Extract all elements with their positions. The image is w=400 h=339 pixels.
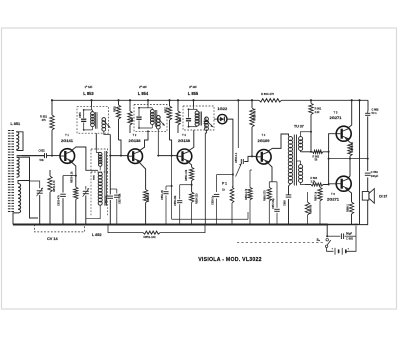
svg-text:3.3k: 3.3k [311, 180, 316, 183]
resistor R859b [176, 99, 180, 133]
wire antenna mid hook [17, 157, 30, 183]
label R852 [53, 180, 56, 192]
svg-text:C 862: C 862 [372, 108, 379, 112]
wire secondary mid [297, 161, 301, 165]
label L851 [11, 122, 21, 126]
svg-text:T 2: T 2 [133, 133, 137, 137]
resistor R858 emitter T3 [189, 167, 193, 192]
wire top supply rail [52, 99, 368, 101]
capacitor C856 [241, 159, 243, 164]
label T3 [178, 133, 191, 143]
svg-text:P 1: P 1 [222, 182, 227, 186]
svg-text:R 858-56 k: R 858-56 k [253, 108, 256, 121]
wire rail end down [367, 100, 369, 112]
svg-text:2G141: 2G141 [61, 138, 74, 143]
transformer TU37 secondary bottom [299, 165, 303, 183]
wire diode in [214, 118, 218, 120]
wire T2 collector [140, 130, 149, 150]
svg-text:R855: R855 [114, 106, 117, 112]
svg-text:R 861: R 861 [315, 108, 322, 111]
svg-text:R853-8.2k: R853-8.2k [71, 171, 74, 183]
svg-text:T 4: T 4 [262, 133, 266, 137]
title VISIOLA MOD VL3022 [198, 257, 262, 263]
wire ground rail [13, 224, 327, 226]
resistor R859 [189, 192, 193, 225]
junction dots top rail [51, 99, 361, 101]
resistor R866 [305, 192, 309, 225]
diode 1G22 [218, 114, 227, 123]
label C860 [284, 200, 287, 206]
oscillator core [105, 151, 107, 206]
svg-text:DI 37: DI 37 [379, 194, 387, 198]
capacitor C862 [365, 112, 370, 159]
label DI37 [379, 194, 387, 198]
wire antenna tap to base line [17, 155, 44, 157]
wire T6 emitter [347, 190, 351, 202]
wire AVC drop [237, 99, 239, 148]
resistor R867 [318, 185, 322, 225]
label L854 [138, 91, 149, 96]
resistor R860b [267, 182, 271, 225]
label R851-10k [144, 235, 157, 239]
svg-text:1ª MF: 1ª MF [85, 85, 93, 89]
wire T5 emitter [347, 140, 350, 143]
oscillator coil L852 [98, 172, 102, 205]
capacitor C854 [0, 0, 1, 1]
svg-text:C860: C860 [284, 200, 287, 206]
wire osc link [30, 176, 76, 189]
label T1 [61, 133, 74, 143]
capacitor C859 [214, 194, 219, 224]
wire T3 collector [189, 130, 194, 151]
node mid rail [328, 152, 330, 186]
svg-text:T 3: T 3 [182, 133, 186, 137]
svg-text:R 860-470: R 860-470 [261, 92, 275, 96]
label T4 [257, 133, 270, 143]
svg-text:R865-3.3: R865-3.3 [351, 141, 354, 152]
capacitor C863 [365, 159, 371, 192]
wire T3 emitter [188, 162, 192, 168]
label T2 [128, 133, 141, 143]
svg-text:C 863: C 863 [371, 170, 378, 174]
antenna ferrite rod L851 [8, 130, 14, 212]
wire pot top link [217, 175, 233, 193]
wire diode out [227, 119, 234, 187]
svg-text:C852: C852 [39, 149, 46, 153]
junction dots ground rail [39, 224, 321, 226]
resistor R853 emitter T1 [74, 169, 78, 225]
svg-text:L 855: L 855 [188, 91, 199, 96]
svg-text:47k: 47k [42, 118, 47, 122]
label R868 [347, 203, 350, 212]
svg-text:C858-32k: C858-32k [174, 195, 177, 206]
svg-text:L 853: L 853 [83, 91, 94, 96]
transistor T6 [336, 176, 351, 191]
wire P1 bottom [231, 203, 233, 225]
label L855 [188, 91, 199, 96]
svg-text:T 6: T 6 [331, 192, 335, 196]
svg-text:C859-2μ: C859-2μ [211, 195, 214, 205]
wire switch drop [326, 224, 328, 238]
potentiometer P1 [230, 187, 234, 203]
wire L855 secondary to diode [0, 0, 1, 1]
svg-text:0595: 0595 [94, 174, 96, 180]
svg-text:R858-1.8k: R858-1.8k [185, 169, 188, 181]
label T5 [329, 111, 342, 121]
label R854 [114, 106, 117, 112]
wire TU37 primary bottom [289, 184, 291, 192]
svg-text:R852-4.7k: R852-4.7k [53, 180, 56, 192]
wire base T3 [157, 155, 177, 157]
label C859t [161, 189, 164, 200]
svg-text:2G271: 2G271 [327, 197, 340, 202]
resistor R856 emitter T2 [143, 190, 147, 225]
wire T1 collector [72, 147, 98, 170]
svg-text:50μF: 50μF [346, 231, 352, 235]
svg-text:R856-1k: R856-1k [147, 192, 150, 202]
label R858b [165, 107, 168, 113]
capacitor C852 [45, 153, 47, 158]
wire secondary bottom feed [300, 183, 305, 185]
label R856 [147, 192, 150, 202]
transistor T4 [257, 150, 272, 165]
label R859b [179, 117, 182, 122]
capacitor C865 [341, 233, 343, 239]
wire L854 secondary down [157, 129, 159, 156]
wire antenna bottom [13, 213, 18, 225]
resistor R860 [259, 99, 282, 102]
svg-text:C857-50μ: C857-50μ [272, 198, 275, 209]
label C858t [174, 195, 177, 206]
label TU37 [294, 124, 304, 128]
svg-text:L 854: L 854 [138, 91, 149, 96]
label 1G22 [217, 106, 228, 111]
label R859 [196, 193, 199, 204]
label P1 [222, 182, 227, 186]
IF transformer L855 can [183, 106, 214, 131]
dashed switch link [237, 241, 323, 243]
transistor T2 [128, 149, 143, 164]
resistor R859c [248, 170, 252, 225]
resistor R864 [305, 183, 323, 186]
label 1a MF [85, 85, 93, 89]
label L852 under [92, 233, 102, 237]
tuning capacitor CV14 section a [37, 188, 43, 225]
svg-text:R851-10k: R851-10k [144, 235, 157, 239]
wire L853 secondary down [104, 131, 111, 156]
potentiometer wiper arrow [236, 164, 242, 177]
wire ground rail right [327, 224, 358, 226]
transistor T5 [336, 126, 351, 141]
label R861 [315, 108, 322, 115]
capacitor C857e [274, 182, 279, 225]
oscillator winding upper [98, 152, 102, 166]
wire L852 leads [86, 205, 100, 219]
capacitor C861b [204, 117, 209, 129]
svg-text:50 n: 50 n [372, 111, 378, 115]
svg-text:C853-47k: C853-47k [58, 194, 61, 206]
resistor R865 [348, 143, 352, 159]
wire bias join T3 [170, 140, 172, 156]
svg-text:VISIOLA - MOD. VL3022: VISIOLA - MOD. VL3022 [198, 257, 262, 263]
svg-text:R867-1k: R867-1k [314, 191, 317, 201]
resistor R854 [116, 99, 120, 140]
wire R863 to T5 base [323, 134, 337, 153]
wire antenna top hook [16, 132, 23, 151]
svg-text:3ª MF: 3ª MF [189, 85, 197, 89]
svg-text:2G109: 2G109 [257, 138, 270, 143]
label R859c [245, 188, 248, 200]
svg-text:TU 37: TU 37 [294, 124, 304, 128]
svg-text:C857-50k: C857-50k [119, 193, 122, 204]
capacitor C856b [108, 156, 113, 225]
label C857e [272, 198, 275, 209]
oscillator feedback can dashed [91, 149, 108, 172]
wire osc coupling [0, 0, 1, 1]
antenna coil L851 winding a [16, 132, 19, 150]
capacitor C860 [286, 192, 292, 225]
label P1 value [222, 188, 225, 192]
transformer TU37 primary [288, 137, 292, 184]
wire T1 emitter [71, 162, 76, 170]
wire T6 collector [348, 159, 350, 178]
wire speaker bottom [358, 200, 368, 225]
svg-text:1G22: 1G22 [217, 106, 228, 111]
svg-text:T 1: T 1 [65, 133, 69, 137]
resistor R852 [48, 170, 52, 225]
label T6 [327, 192, 340, 201]
label C856 [235, 152, 238, 163]
wire battery top link [327, 235, 356, 237]
label R864 [311, 177, 318, 183]
label C865 [346, 231, 353, 240]
wire rail to L853 [91, 99, 93, 106]
label S1 [317, 238, 321, 242]
transformer TU37 core [294, 135, 296, 186]
wire osc upper leads [96, 150, 100, 171]
wire V+ vertical [359, 99, 361, 224]
wire battery right [346, 224, 357, 252]
label C853 [58, 194, 61, 206]
svg-text:2G271: 2G271 [329, 115, 342, 120]
resistor R851 [50, 99, 54, 156]
label R851 [40, 115, 48, 122]
svg-text:R860-270: R860-270 [263, 190, 266, 201]
dashed gang outline CV14 [35, 225, 85, 232]
label 3a MF [189, 85, 197, 89]
label R863 [313, 156, 320, 162]
svg-text:R857: R857 [165, 107, 168, 113]
capacitor C859t [163, 186, 171, 225]
label L853 [83, 91, 94, 96]
wire R851-10k bypass [108, 225, 205, 235]
label R858c [253, 108, 256, 121]
antenna coil L851 winding b [17, 157, 20, 177]
wire C856 to base T4 [244, 155, 256, 161]
svg-text:CV 14: CV 14 [47, 237, 58, 241]
wire rail to L854 [147, 99, 149, 104]
resistor R861 [309, 99, 313, 153]
resistor R858b [167, 99, 171, 140]
transistor T1 [60, 149, 75, 164]
switch S1 [325, 238, 330, 247]
label 2a MF [139, 85, 147, 89]
svg-text:T 5: T 5 [334, 111, 338, 115]
transformer TU37 secondary top [299, 137, 303, 151]
wire L853 primary down [95, 133, 97, 149]
label C856b [105, 195, 108, 205]
label R855 [131, 117, 134, 122]
wire T4 collector [268, 134, 288, 151]
label C862 [372, 108, 379, 116]
svg-text:C859-.05: C859-.05 [161, 189, 164, 200]
wire antenna right drop [30, 157, 39, 218]
wire T2 emitter [139, 162, 146, 190]
label R860 [261, 92, 275, 96]
svg-text:50k: 50k [40, 158, 45, 162]
wire AGC line [171, 155, 248, 220]
wire mid node line [329, 158, 369, 160]
svg-text:C856-0.1: C856-0.1 [235, 152, 238, 163]
wire base T1 [22, 155, 60, 157]
battery B1 [332, 248, 350, 255]
wire secondary top feed [300, 132, 311, 152]
capacitor C853 [60, 176, 66, 225]
label C855 [79, 112, 82, 118]
capacitor C857b [114, 189, 119, 225]
wire bias join T2 [119, 140, 122, 156]
wire battery left [327, 248, 334, 252]
svg-text:2G138: 2G138 [128, 138, 141, 143]
wire T2 lower link [110, 188, 117, 190]
wire base T2 [109, 155, 128, 157]
label C859 [211, 195, 214, 205]
wire T5 collector [348, 99, 352, 127]
resistor R863 [302, 150, 323, 153]
wire R864 to T6 base [323, 183, 336, 186]
IF transformer L854 can [134, 105, 167, 132]
label C857b [119, 193, 122, 204]
tuning capacitor CV14 section b [83, 186, 89, 225]
label R866 [310, 204, 313, 214]
wire L855 secondary return [204, 130, 206, 226]
capacitor C858t [177, 185, 192, 225]
svg-text:R868-1: R868-1 [347, 203, 350, 212]
svg-text:2.2k: 2.2k [315, 111, 320, 114]
svg-text:R859-220: R859-220 [196, 193, 199, 204]
svg-text:2ª MF: 2ª MF [139, 85, 147, 89]
wire T4 emitter [267, 162, 277, 182]
IF transformer L853 can [77, 107, 110, 134]
svg-text:L 852: L 852 [92, 233, 102, 237]
svg-text:100μF: 100μF [371, 174, 379, 178]
dashed L852 sides [91, 172, 108, 216]
svg-text:L 851: L 851 [11, 122, 21, 126]
wire rail to L855 [193, 99, 195, 106]
label R853 [71, 171, 74, 183]
label R858 [185, 169, 188, 181]
label CV14 [47, 237, 58, 241]
label C863 [371, 170, 379, 178]
speaker DI37 [362, 189, 374, 204]
resistor R855 [128, 99, 132, 133]
resistor R868 [349, 202, 353, 225]
label R867 [314, 191, 317, 201]
label C852 [39, 149, 46, 162]
svg-text:R866-56: R866-56 [310, 204, 313, 214]
transistor T3 [177, 149, 192, 164]
svg-text:R859-4.7k: R859-4.7k [245, 188, 248, 200]
label osc winding [94, 174, 96, 180]
resistor R858c [250, 99, 254, 156]
svg-text:C855: C855 [79, 112, 82, 118]
svg-text:2G138: 2G138 [178, 138, 191, 143]
svg-text:S₁: S₁ [317, 238, 321, 242]
label R860b [263, 190, 266, 201]
antenna coil L851 winding c [18, 184, 21, 213]
svg-text:C 865: C 865 [346, 236, 353, 240]
label R865 [351, 141, 354, 152]
